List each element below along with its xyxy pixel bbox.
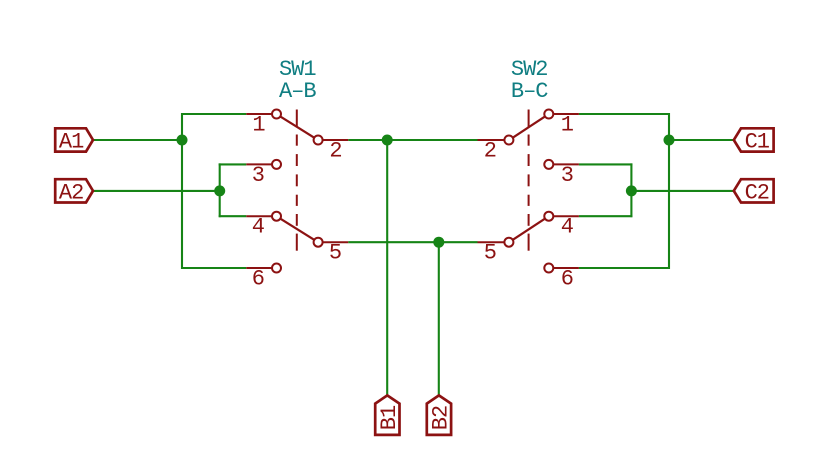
svg-text:A1: A1 [59, 130, 84, 155]
svg-text:A–B: A–B [279, 79, 316, 104]
svg-text:4: 4 [252, 215, 265, 240]
svg-text:3: 3 [561, 163, 573, 188]
svg-text:B–C: B–C [511, 79, 548, 104]
svg-text:6: 6 [252, 267, 264, 292]
svg-text:C2: C2 [745, 180, 769, 205]
svg-text:B2: B2 [429, 406, 454, 430]
svg-text:C1: C1 [745, 130, 770, 155]
svg-text:A2: A2 [59, 180, 83, 205]
svg-text:1: 1 [252, 113, 265, 138]
svg-text:4: 4 [561, 215, 574, 240]
svg-text:2: 2 [484, 138, 496, 163]
svg-text:6: 6 [561, 267, 573, 292]
svg-text:2: 2 [329, 138, 341, 163]
svg-text:3: 3 [252, 163, 264, 188]
svg-text:1: 1 [561, 113, 574, 138]
svg-text:5: 5 [484, 241, 496, 266]
svg-text:B1: B1 [377, 405, 402, 430]
svg-text:5: 5 [329, 241, 341, 266]
